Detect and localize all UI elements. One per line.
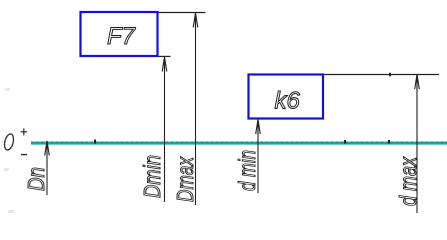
wire: top extension line from F7 box — [158, 12, 206, 14]
dimension line Dmin with arrowhead — [162, 57, 167, 202]
tolerance zone box F7 — [81, 12, 158, 56]
svg-text:k6: k6 — [275, 87, 301, 114]
wire: top extension line from k6 box — [323, 74, 439, 76]
svg-text:d min: d min — [234, 150, 260, 191]
minus sign — [21, 154, 27, 156]
svg-text:Dmax: Dmax — [172, 156, 198, 202]
wire: bottom extension line from F7 box — [158, 55, 171, 57]
dimension line Dmax with arrowhead — [193, 13, 198, 205]
dimension line d max with arrowhead — [415, 75, 420, 214]
svg-text:F7: F7 — [107, 23, 137, 50]
label Dmin — [139, 155, 165, 198]
label d min — [234, 150, 260, 191]
tick on k6 extension line — [389, 73, 391, 77]
tick marks on zero line — [94, 140, 390, 144]
svg-text:Dn: Dn — [23, 167, 49, 191]
label Dmax — [172, 156, 198, 202]
label F7 — [107, 23, 137, 50]
plus sign — [21, 128, 28, 135]
svg-text:Dmin: Dmin — [139, 155, 165, 198]
dimension line Dn with arrowhead — [45, 141, 50, 195]
label k6 — [275, 87, 301, 114]
label 0 — [3, 133, 15, 151]
svg-text:d max: d max — [395, 156, 421, 206]
tolerance zone box k6 — [249, 75, 324, 119]
label d max — [395, 156, 421, 206]
dimension line d min with arrowhead — [256, 120, 261, 194]
faint artifact marks at left edge — [4, 88, 14, 213]
zero line (teal) — [31, 142, 447, 145]
label Dn — [23, 167, 49, 191]
